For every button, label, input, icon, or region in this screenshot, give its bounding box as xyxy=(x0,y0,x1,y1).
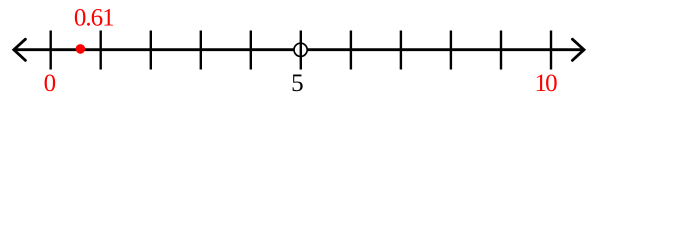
tick 2 xyxy=(150,31,152,70)
tick 4 xyxy=(250,31,252,70)
tick 0 xyxy=(50,31,52,70)
svg-text:5: 5 xyxy=(291,70,304,97)
tick 1 xyxy=(99,31,101,70)
svg-text:0.61: 0.61 xyxy=(74,5,114,32)
tick 9 xyxy=(500,31,502,70)
tick 7 xyxy=(400,31,402,70)
tick 8 xyxy=(450,31,452,70)
tick 10 xyxy=(550,31,552,70)
tick 5 xyxy=(300,31,302,70)
right arrowhead xyxy=(572,39,584,60)
tick 3 xyxy=(200,31,202,70)
svg-text:0: 0 xyxy=(44,70,57,97)
point at 0.61 (red dot) xyxy=(76,44,86,54)
wire number-line axis xyxy=(14,48,584,51)
open circle at 5 xyxy=(294,43,307,56)
left arrowhead xyxy=(14,39,26,60)
tick 6 xyxy=(350,31,352,70)
svg-text:10: 10 xyxy=(534,70,557,97)
